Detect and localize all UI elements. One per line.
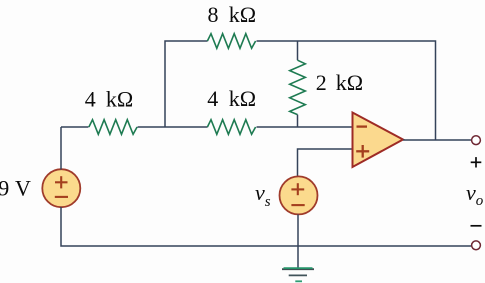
svg-text:4kΩ: 4kΩ (207, 86, 256, 111)
label "+" (output polarity) (471, 157, 482, 167)
label "−" (output polarity) (471, 225, 482, 227)
wire: from vs bottom to ground net (bottom wire) (297, 214, 299, 246)
terminal: output + (open circle) (472, 136, 481, 145)
resistor 4 kΩ (middle, to op-amp inverting input) (207, 120, 255, 135)
voltage source 9 V (circle) (42, 169, 80, 207)
svg-text:vo: vo (466, 180, 484, 209)
ground symbol (282, 268, 314, 281)
vs minus mark (291, 204, 304, 206)
voltage source vs (circle) (280, 176, 318, 214)
wire: top feedback net, left segment (node A to 8k resistor) (165, 41, 208, 127)
svg-text:8kΩ: 8kΩ (208, 2, 257, 27)
wire: non-inverting input net (from vs top to op-amp +) (298, 149, 353, 176)
9V minus mark (55, 196, 68, 198)
svg-text:9V: 9V (0, 176, 31, 201)
op-amp non-inverting input mark (+) (356, 145, 369, 158)
wire: 2 kΩ branch, from top net down to resistor (297, 41, 299, 60)
wire: left rail from middle net down to 9V source top (60, 127, 62, 170)
9V plus mark (55, 176, 68, 188)
wire: ground stem below bottom net (297, 246, 299, 268)
resistor 4 kΩ (left, from source) (89, 120, 137, 135)
terminal: output − (open circle, bottom right) (472, 241, 481, 250)
wire: middle net between the two 4 kΩ resistors (node A junction) (138, 126, 208, 128)
wire: top feedback net, right segment to output node (257, 41, 436, 140)
wire: middle (inverting input) net, left segment from node V1 (61, 126, 89, 128)
op-amp U1 (triangle) (353, 113, 404, 168)
wire: middle net right segment to op-amp inverting input (node B junction) (257, 126, 353, 128)
resistor 2 kΩ (vertical) (290, 60, 306, 114)
resistor 8 kΩ (feedback, top) (207, 34, 255, 49)
vs plus mark (291, 183, 304, 195)
wire: 2 kΩ branch, from resistor down to middle net (node B) (297, 115, 299, 127)
svg-text:2kΩ: 2kΩ (316, 70, 363, 95)
svg-text:4kΩ: 4kΩ (85, 87, 134, 112)
wire: op-amp output to terminal (junction with feedback at x=435.5) (403, 139, 471, 141)
op-amp inverting input mark (−) (357, 125, 368, 127)
svg-text:vs: vs (255, 180, 271, 210)
wire: 9V source bottom to bottom net (61, 207, 471, 246)
